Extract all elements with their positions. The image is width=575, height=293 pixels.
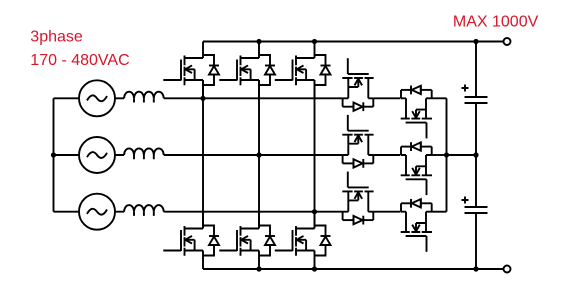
wire: bidir A to B-stage link [373, 97, 400, 99]
node: phase B / leg B junction [256, 152, 261, 157]
wire: midpoint bracket vertical [446, 98, 448, 211]
node: top bus leg B [256, 39, 261, 44]
wire: bidir B to midpoint bracket [432, 154, 447, 156]
transistor Q3 top leg C with body diode [275, 42, 331, 99]
transistor Q7 bidirectional switch A left [342, 58, 373, 111]
transistor Q5 bottom leg B with body diode [219, 212, 275, 269]
transistor Q2 top leg B with body diode [219, 42, 275, 99]
wire: midpoint to capacitor string [447, 154, 477, 156]
node: top bus capacitor column [473, 39, 478, 44]
ac source V2 [79, 137, 115, 173]
node: bottom bus leg C [312, 266, 317, 271]
transistor Q1 top leg A with body diode [163, 42, 219, 99]
node: capacitor midpoint [473, 152, 478, 157]
transistor Q6 bottom leg C with body diode [275, 212, 331, 269]
svg-text:MAX 1000V: MAX 1000V [453, 14, 539, 31]
wire: phase A line [115, 97, 343, 99]
terminal DC- [504, 266, 511, 273]
transistor Q12 bidirectional switch C right [401, 199, 432, 252]
wire: leg B vertical [258, 80, 260, 229]
wire: neutral star-point vertical [53, 98, 55, 211]
wire: source A left stub [54, 97, 80, 99]
inductor L2 [124, 148, 164, 159]
wire: phase B line [115, 154, 343, 156]
transistor Q10 bidirectional switch B right [401, 142, 432, 195]
wire: source C left stub [54, 211, 80, 213]
wire: phase C line [115, 211, 343, 213]
inductor L1 [124, 92, 164, 103]
node: top bus leg C [312, 39, 317, 44]
transistor Q11 bidirectional switch C left [342, 172, 373, 225]
wire: bidir B to B-stage link [373, 154, 400, 156]
inductor L3 [124, 205, 164, 216]
terminal DC+ [504, 38, 511, 45]
wire: bottom DC- bus [203, 268, 504, 270]
wire: top DC+ bus [203, 41, 504, 43]
wire: capacitor column [475, 42, 477, 270]
wire: leg A vertical [202, 80, 204, 229]
transistor Q9 bidirectional switch B left [342, 115, 373, 168]
node: neutral / phase B [51, 152, 56, 157]
transistor Q8 bidirectional switch A right [401, 86, 432, 139]
node: phase A / leg A junction [200, 96, 205, 101]
ac source V1 [79, 80, 115, 116]
ac source V3 [79, 194, 115, 230]
node: bracket / midpoint wire [444, 152, 449, 157]
wire: bidir C to B-stage link [373, 211, 400, 213]
node: phase C / leg C junction [312, 209, 317, 214]
wire: source B left stub [54, 154, 80, 156]
svg-text:170 - 480VAC: 170 - 480VAC [30, 52, 129, 69]
transistor Q4 bottom leg A with body diode [163, 212, 219, 269]
wire: bidir A to midpoint bracket [432, 97, 447, 99]
svg-text:3phase: 3phase [30, 28, 83, 45]
capacitor C2 [462, 197, 488, 214]
node: bottom bus leg B [256, 266, 261, 271]
capacitor C1 [462, 85, 488, 104]
wire: bidir C to midpoint bracket [432, 211, 447, 213]
wire: leg C vertical [314, 80, 316, 229]
node: bottom bus capacitor column [473, 266, 478, 271]
